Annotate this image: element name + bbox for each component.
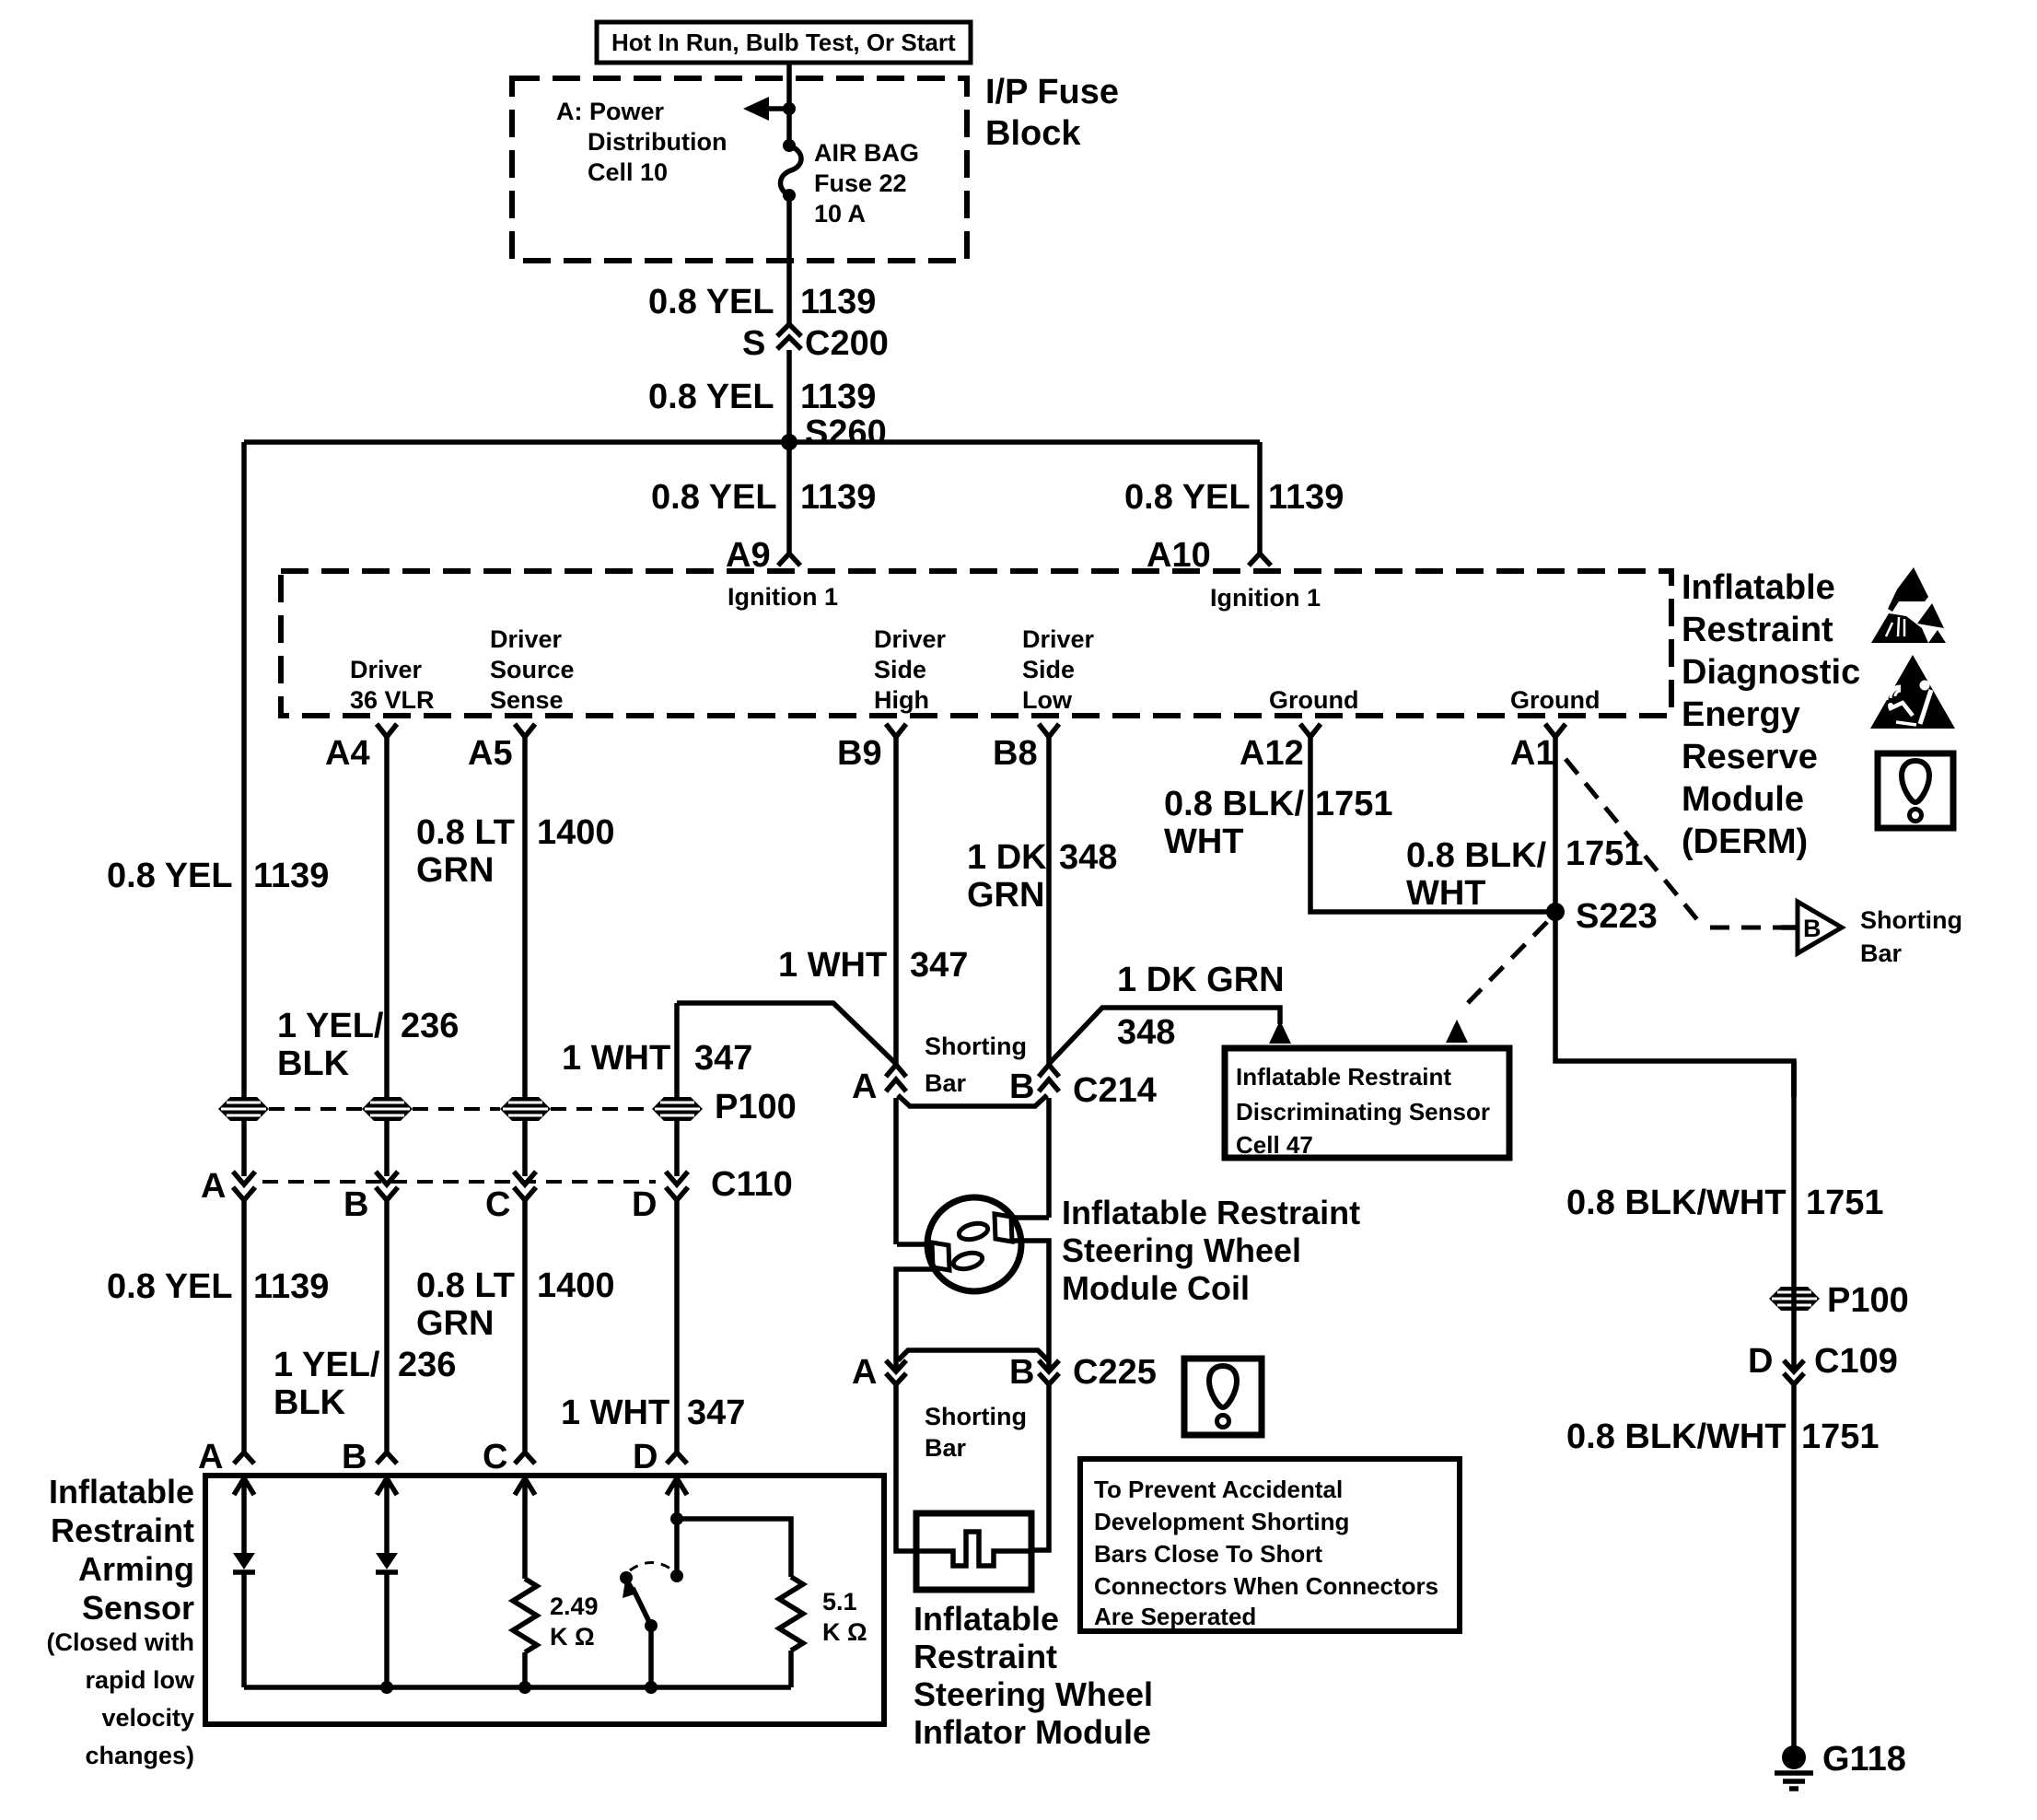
svg-text:High: High bbox=[874, 686, 929, 714]
label 0.8 LT GRN 1400 (lower) bbox=[416, 1266, 615, 1343]
svg-text:1 DK: 1 DK bbox=[967, 838, 1047, 877]
svg-text:C200: C200 bbox=[805, 324, 889, 363]
svg-text:changes): changes) bbox=[85, 1742, 194, 1769]
wire A9 branch bbox=[786, 442, 792, 554]
svg-text:1400: 1400 bbox=[537, 813, 615, 852]
svg-text:0.8 BLK/WHT: 0.8 BLK/WHT bbox=[1566, 1417, 1787, 1456]
svg-text:Bar: Bar bbox=[1860, 939, 1903, 967]
splice S223 bbox=[1546, 897, 1658, 936]
svg-text:K Ω: K Ω bbox=[822, 1618, 867, 1646]
svg-text:B8: B8 bbox=[993, 734, 1038, 773]
svg-text:AIR BAG: AIR BAG bbox=[814, 139, 919, 167]
switch dashed travel arc bbox=[630, 1563, 673, 1571]
svg-text:Bar: Bar bbox=[925, 1069, 967, 1097]
label 2.49 K ohm bbox=[550, 1592, 599, 1651]
svg-text:1139: 1139 bbox=[800, 478, 876, 517]
switch fixed contact (D) bbox=[674, 1519, 680, 1571]
arming sensor pin D fork bbox=[633, 1438, 687, 1476]
connector C109 pin D chevrons bbox=[1748, 1342, 1898, 1384]
wire S260 horizontal bus bbox=[244, 439, 1260, 445]
svg-text:S223: S223 bbox=[1576, 897, 1658, 936]
svg-text:B: B bbox=[343, 1185, 368, 1224]
arrow into pin C inside box bbox=[515, 1478, 535, 1579]
coil lower slip ring bbox=[897, 1242, 984, 1272]
connector C110 pin D chevrons bbox=[632, 1172, 688, 1224]
svg-text:Module Coil: Module Coil bbox=[1062, 1269, 1250, 1307]
DERM dashed box bbox=[281, 571, 1671, 716]
connector C110 pin A chevrons bbox=[201, 1167, 255, 1206]
svg-text:Restraint: Restraint bbox=[51, 1511, 194, 1549]
wire C225 A to inflator module bbox=[896, 1384, 916, 1551]
wire A4 column C110 to arming sensor bbox=[384, 1200, 390, 1452]
wire resistor 5.1 to bus bbox=[788, 1651, 794, 1687]
svg-text:Bar: Bar bbox=[925, 1434, 967, 1462]
arrow into pin A inside box bbox=[234, 1478, 254, 1553]
wire A5 column C110 to arming sensor bbox=[522, 1200, 528, 1452]
svg-text:347: 347 bbox=[910, 946, 968, 985]
svg-text:1 DK GRN: 1 DK GRN bbox=[1117, 961, 1285, 999]
label 1 YEL/ BLK 236 (A4) bbox=[277, 1007, 459, 1083]
svg-text:(Closed with: (Closed with bbox=[47, 1628, 195, 1656]
arrow to A: Power Distribution bbox=[743, 97, 796, 121]
svg-text:Block: Block bbox=[985, 114, 1081, 153]
connector row C110 dashed line bbox=[262, 1180, 656, 1184]
wire C200 to S260 bbox=[786, 350, 792, 442]
label 1 DK GRN 348 (B8) bbox=[967, 838, 1117, 915]
svg-text:Sensor: Sensor bbox=[82, 1589, 194, 1627]
svg-text:Side: Side bbox=[1022, 656, 1075, 683]
diode at pin A bbox=[233, 1553, 255, 1572]
wire D column C110 down then to C225 area label bbox=[674, 1200, 680, 1452]
wire C214 B down to coil bbox=[1046, 1098, 1052, 1218]
svg-text:P100: P100 bbox=[715, 1088, 797, 1126]
label 1 WHT 347 (D column) bbox=[562, 1039, 752, 1078]
svg-text:1139: 1139 bbox=[800, 283, 876, 321]
label 0.8 YEL 1139 (lower left) bbox=[107, 1267, 329, 1306]
wire B9 down to C214 A bbox=[893, 737, 899, 1065]
label 0.8 YEL 1139 bbox=[648, 378, 876, 416]
switch moving contact and arm bbox=[620, 1571, 658, 1687]
svg-text:0.8 YEL: 0.8 YEL bbox=[107, 857, 233, 895]
diode at pin B bbox=[376, 1553, 398, 1572]
label 0.8 BLK/ WHT 1751 (A1) bbox=[1406, 834, 1644, 913]
label Shorting Bar (C214) bbox=[925, 1032, 1027, 1097]
label A: Power Distribution Cell 10 bbox=[556, 98, 727, 186]
svg-text:347: 347 bbox=[687, 1394, 745, 1432]
arming sensor pin A fork bbox=[198, 1438, 254, 1476]
wire B8 down to C214 B bbox=[1046, 737, 1052, 1065]
grommet P100 (wire 2) bbox=[362, 1097, 413, 1121]
wire A4 down bbox=[384, 737, 390, 1176]
svg-text:C214: C214 bbox=[1073, 1071, 1157, 1110]
icon ESD warning triangle bbox=[1871, 567, 1946, 643]
svg-text:C110: C110 bbox=[711, 1165, 793, 1204]
svg-text:Discriminating Sensor: Discriminating Sensor bbox=[1236, 1098, 1490, 1126]
coil circle (steering wheel module coil) bbox=[927, 1197, 1021, 1291]
wire right column to P100 bbox=[1791, 1061, 1797, 1097]
svg-text:B: B bbox=[1009, 1353, 1034, 1392]
svg-text:236: 236 bbox=[401, 1007, 459, 1045]
label AIR BAG Fuse 22 10 A bbox=[814, 139, 919, 227]
dashed grommet line P100 bbox=[269, 1107, 652, 1111]
wire 1 DK GRN from C214 B to sensor box bbox=[1049, 1008, 1280, 1064]
svg-text:A: Power: A: Power bbox=[556, 98, 665, 125]
grommet P100 (right) bbox=[1769, 1287, 1820, 1311]
svg-text:B: B bbox=[1009, 1067, 1034, 1106]
connector C214 pin A chevrons bbox=[852, 1065, 906, 1106]
pin B9 fork bbox=[837, 724, 906, 773]
svg-text:Driver: Driver bbox=[350, 656, 423, 683]
svg-text:BLK: BLK bbox=[277, 1044, 350, 1083]
label Shorting Bar (C225) bbox=[925, 1403, 1027, 1462]
label 5.1 K ohm bbox=[822, 1588, 867, 1646]
junction dot bus B bbox=[380, 1681, 393, 1694]
svg-text:A5: A5 bbox=[468, 734, 513, 773]
svg-text:Cell 47: Cell 47 bbox=[1236, 1131, 1313, 1159]
svg-text:Energy: Energy bbox=[1682, 695, 1800, 734]
label 0.8 LT GRN 1400 (A5) bbox=[416, 813, 615, 890]
svg-text:A12: A12 bbox=[1240, 734, 1304, 773]
svg-text:B: B bbox=[1803, 915, 1822, 942]
svg-text:(DERM): (DERM) bbox=[1682, 822, 1808, 861]
svg-text:Connectors When Connectors: Connectors When Connectors bbox=[1094, 1572, 1438, 1600]
connector C110 pin B chevrons bbox=[343, 1172, 398, 1224]
svg-text:0.8 BLK/WHT: 0.8 BLK/WHT bbox=[1566, 1184, 1787, 1222]
svg-text:BLK: BLK bbox=[274, 1383, 346, 1422]
label 0.8 YEL 1139 (left column) bbox=[107, 857, 329, 895]
coil right output wire bbox=[1010, 1241, 1049, 1370]
svg-text:C225: C225 bbox=[1073, 1353, 1157, 1392]
svg-text:1751: 1751 bbox=[1801, 1417, 1880, 1456]
svg-text:Arming: Arming bbox=[78, 1550, 194, 1588]
svg-text:C: C bbox=[483, 1438, 507, 1476]
label Driver Side High bbox=[874, 625, 947, 714]
svg-text:1751: 1751 bbox=[1806, 1184, 1884, 1222]
svg-text:0.8 YEL: 0.8 YEL bbox=[1124, 478, 1251, 517]
svg-text:Driver: Driver bbox=[490, 625, 563, 653]
wire C109 to ground bbox=[1791, 1384, 1797, 1750]
svg-text:C: C bbox=[485, 1185, 510, 1224]
wire P100 to C109 bbox=[1791, 1061, 1797, 1370]
wire A1 down through S223 bbox=[1555, 737, 1794, 1097]
wire fuse to C200 bbox=[786, 195, 792, 324]
junction dot D branch bbox=[670, 1512, 683, 1525]
svg-text:D: D bbox=[632, 1185, 657, 1224]
svg-text:Hot In Run, Bulb Test, Or Star: Hot In Run, Bulb Test, Or Start bbox=[611, 29, 956, 56]
svg-text:Restraint: Restraint bbox=[914, 1638, 1057, 1675]
junction dot bus switch bbox=[645, 1681, 658, 1694]
svg-text:A: A bbox=[852, 1353, 877, 1392]
svg-text:1 YEL/: 1 YEL/ bbox=[274, 1346, 380, 1384]
label I/P Fuse Block bbox=[985, 73, 1119, 153]
svg-text:A4: A4 bbox=[325, 734, 370, 773]
svg-text:1139: 1139 bbox=[253, 1267, 329, 1306]
junction dot bus C bbox=[518, 1681, 531, 1694]
label Inflatable Restraint Steering Wheel Inflator Module bbox=[914, 1600, 1153, 1751]
svg-text:Cell 10: Cell 10 bbox=[588, 158, 668, 186]
icon airbag deployment triangle bbox=[1870, 655, 1955, 729]
svg-text:C109: C109 bbox=[1814, 1342, 1898, 1381]
svg-text:1139: 1139 bbox=[1268, 478, 1344, 517]
svg-text:A: A bbox=[198, 1438, 223, 1476]
connector C110 pin C chevrons bbox=[485, 1172, 536, 1224]
svg-text:Source: Source bbox=[490, 656, 575, 683]
svg-text:velocity: velocity bbox=[101, 1704, 194, 1732]
svg-text:Ignition 1: Ignition 1 bbox=[1210, 584, 1321, 612]
svg-text:Inflatable: Inflatable bbox=[49, 1473, 194, 1511]
wire left branch down bbox=[241, 442, 247, 1176]
wire A5 down bbox=[522, 737, 528, 1176]
svg-text:Sense: Sense bbox=[490, 686, 564, 714]
svg-text:347: 347 bbox=[694, 1039, 752, 1078]
wire diode B to bus bbox=[384, 1572, 390, 1687]
label Inflatable Restraint Diagnostic Energy Reserve Module (DERM) bbox=[1682, 568, 1860, 861]
svg-text:Shorting: Shorting bbox=[925, 1032, 1027, 1060]
svg-text:Steering Wheel: Steering Wheel bbox=[914, 1675, 1153, 1713]
arming sensor box bbox=[205, 1476, 884, 1724]
label 1 WHT 347 (lower) bbox=[561, 1394, 745, 1432]
svg-text:Are Seperated: Are Seperated bbox=[1094, 1603, 1256, 1630]
fuse F22 AIR BAG 10A bbox=[780, 139, 801, 202]
squib element inside inflator module bbox=[919, 1532, 1029, 1566]
svg-text:348: 348 bbox=[1059, 838, 1117, 877]
wire A10 branch bbox=[1257, 442, 1263, 554]
power source box "Hot In Run, Bulb Test, Or Start" bbox=[597, 22, 971, 63]
pin A1 fork bbox=[1510, 724, 1566, 773]
svg-text:Ignition 1: Ignition 1 bbox=[727, 583, 838, 611]
label 0.8 BLK/ WHT 1751 (A12) bbox=[1164, 785, 1393, 861]
arming sensor pin C fork bbox=[483, 1438, 535, 1476]
label 1 WHT 347 (B9) bbox=[778, 946, 968, 985]
grommet P100 (wire 3) bbox=[500, 1097, 551, 1121]
svg-text:Inflatable Restraint: Inflatable Restraint bbox=[1062, 1194, 1360, 1231]
pin A4 fork bbox=[325, 724, 397, 773]
label Inflatable Restraint Discriminating Sensor Cell 47 bbox=[1236, 1063, 1490, 1159]
wire C214 A down to coil bbox=[893, 1098, 899, 1244]
Inflatable Restraint Discriminating Sensor box bbox=[1225, 1048, 1509, 1158]
connector C200 pin S bbox=[742, 324, 889, 363]
svg-text:Side: Side bbox=[874, 656, 926, 683]
wire left column C110 to arming sensor bbox=[241, 1200, 247, 1452]
svg-text:1139: 1139 bbox=[253, 857, 329, 895]
svg-text:Fuse 22: Fuse 22 bbox=[814, 169, 907, 197]
dashed link S223 to discriminating sensor bbox=[1460, 922, 1547, 1011]
label 0.8 YEL 1139 bbox=[648, 283, 876, 321]
pin A5 fork bbox=[468, 724, 535, 773]
svg-text:Ground: Ground bbox=[1269, 686, 1358, 714]
svg-text:K Ω: K Ω bbox=[550, 1623, 595, 1651]
svg-text:Inflatable: Inflatable bbox=[914, 1600, 1059, 1638]
svg-text:0.8 YEL: 0.8 YEL bbox=[107, 1267, 233, 1306]
svg-text:WHT: WHT bbox=[1164, 822, 1244, 861]
svg-text:GRN: GRN bbox=[416, 1304, 494, 1343]
svg-text:B9: B9 bbox=[837, 734, 882, 773]
wire from source box into fuse block bbox=[786, 62, 792, 144]
svg-text:0.8 LT: 0.8 LT bbox=[416, 813, 515, 852]
svg-text:348: 348 bbox=[1117, 1013, 1175, 1052]
svg-text:Reserve: Reserve bbox=[1682, 738, 1818, 776]
svg-text:0.8 YEL: 0.8 YEL bbox=[648, 283, 774, 321]
sensor bottom bus bbox=[244, 1685, 791, 1690]
pin A12 fork bbox=[1240, 724, 1321, 773]
wire C225 B to inflator module bbox=[1031, 1384, 1049, 1550]
label Shorting Bar (symbol) bbox=[1860, 906, 1962, 967]
svg-text:Low: Low bbox=[1022, 686, 1073, 714]
label Driver Source Sense bbox=[490, 625, 575, 714]
svg-text:A: A bbox=[852, 1067, 877, 1106]
svg-text:S260: S260 bbox=[805, 414, 887, 452]
svg-text:D: D bbox=[1748, 1342, 1773, 1381]
label Driver 36 VLR bbox=[350, 656, 435, 714]
svg-text:D: D bbox=[633, 1438, 658, 1476]
svg-text:WHT: WHT bbox=[1406, 874, 1486, 913]
wire resistor C to bus bbox=[522, 1652, 528, 1687]
svg-text:Shorting: Shorting bbox=[1860, 906, 1962, 934]
svg-text:I/P Fuse: I/P Fuse bbox=[985, 73, 1119, 111]
svg-text:Ground: Ground bbox=[1510, 686, 1600, 714]
arrow into pin D inside box bbox=[667, 1478, 687, 1519]
label To Prevent Accidental Development Shorting Bars Close To Short Connectors When Connectors Are Seperated bbox=[1094, 1476, 1438, 1630]
pin A10 fork bbox=[1147, 536, 1271, 575]
svg-text:GRN: GRN bbox=[416, 851, 494, 890]
svg-text:rapid low: rapid low bbox=[85, 1666, 195, 1694]
svg-text:P100: P100 bbox=[1827, 1281, 1909, 1320]
svg-text:0.8 YEL: 0.8 YEL bbox=[651, 478, 777, 517]
arming sensor pin B fork bbox=[342, 1438, 397, 1476]
connector C214 pin B chevrons bbox=[1009, 1065, 1059, 1106]
label Driver Side Low bbox=[1022, 625, 1095, 714]
svg-text:Driver: Driver bbox=[1022, 625, 1095, 653]
svg-text:G118: G118 bbox=[1822, 1740, 1906, 1779]
wire A12 down and to S223 bbox=[1310, 737, 1552, 912]
svg-text:Shorting: Shorting bbox=[925, 1403, 1027, 1430]
svg-text:0.8 YEL: 0.8 YEL bbox=[648, 378, 774, 416]
svg-text:5.1: 5.1 bbox=[822, 1588, 857, 1616]
svg-text:10 A: 10 A bbox=[814, 200, 866, 227]
label 0.8 BLK/WHT 1751 (right lower) bbox=[1566, 1417, 1880, 1456]
svg-text:Inflatable Restraint: Inflatable Restraint bbox=[1236, 1063, 1451, 1091]
shorting bar bracket C225 bbox=[898, 1350, 1048, 1360]
svg-text:1751: 1751 bbox=[1315, 785, 1393, 823]
svg-text:36 VLR: 36 VLR bbox=[350, 686, 435, 714]
resistor 2.49 K ohm bbox=[513, 1579, 537, 1652]
label 1 YEL/ BLK 236 (lower) bbox=[274, 1346, 456, 1422]
svg-text:Diagnostic: Diagnostic bbox=[1682, 653, 1860, 692]
svg-text:Steering Wheel: Steering Wheel bbox=[1062, 1231, 1301, 1269]
svg-text:A1: A1 bbox=[1510, 734, 1555, 773]
svg-text:Bars Close To Short: Bars Close To Short bbox=[1094, 1540, 1322, 1568]
svg-text:Driver: Driver bbox=[874, 625, 947, 653]
wire diode A to bus bbox=[241, 1572, 247, 1687]
resistor 5.1 K ohm bbox=[779, 1577, 803, 1651]
label 0.8 YEL 1139 (A10) bbox=[1124, 478, 1344, 517]
inflator module box bbox=[916, 1513, 1031, 1590]
svg-text:To Prevent Accidental: To Prevent Accidental bbox=[1094, 1476, 1343, 1503]
coil upper slip ring bbox=[958, 1214, 1049, 1242]
svg-text:1400: 1400 bbox=[537, 1266, 615, 1305]
connector C225 pin A chevrons bbox=[852, 1353, 906, 1392]
label Inflatable Restraint Arming Sensor (Closed with rapid low velocity changes) bbox=[47, 1473, 195, 1769]
svg-text:Distribution: Distribution bbox=[588, 128, 727, 156]
shorting bar bracket C214 bbox=[898, 1095, 1047, 1106]
svg-text:1 WHT: 1 WHT bbox=[778, 946, 887, 985]
svg-text:1 YEL/: 1 YEL/ bbox=[277, 1007, 384, 1045]
dashed link A1 to shorting bar symbol bbox=[1566, 759, 1781, 927]
svg-text:Module: Module bbox=[1682, 780, 1804, 819]
svg-text:2.49: 2.49 bbox=[550, 1592, 599, 1620]
svg-text:236: 236 bbox=[398, 1346, 456, 1384]
svg-text:1 WHT: 1 WHT bbox=[561, 1394, 669, 1432]
coil left output wire bbox=[896, 1269, 933, 1370]
connector C225 pin B chevrons bbox=[1009, 1353, 1059, 1392]
svg-text:1139: 1139 bbox=[800, 378, 876, 416]
goes-to triangle (S223 link) bbox=[1446, 1020, 1468, 1043]
svg-text:0.8 LT: 0.8 LT bbox=[416, 1266, 515, 1305]
pin B8 fork bbox=[993, 724, 1059, 773]
ground G118 bbox=[1775, 1740, 1906, 1789]
shorting bar triangle symbol B bbox=[1781, 902, 1842, 953]
grommet P100 (wire 4) bbox=[652, 1097, 703, 1121]
svg-text:0.8 BLK/: 0.8 BLK/ bbox=[1164, 785, 1304, 823]
To Prevent Accidental box bbox=[1080, 1459, 1460, 1631]
svg-text:B: B bbox=[342, 1438, 367, 1476]
svg-text:1 WHT: 1 WHT bbox=[562, 1039, 670, 1078]
svg-text:S: S bbox=[742, 324, 765, 363]
svg-text:A: A bbox=[201, 1167, 226, 1206]
icon warning exclamation box (right) bbox=[1878, 753, 1953, 828]
svg-text:Inflator Module: Inflator Module bbox=[914, 1713, 1151, 1751]
svg-text:0.8 BLK/: 0.8 BLK/ bbox=[1406, 836, 1546, 875]
svg-text:GRN: GRN bbox=[967, 876, 1044, 915]
svg-text:Inflatable: Inflatable bbox=[1682, 568, 1835, 607]
label Inflatable Restraint Steering Wheel Module Coil bbox=[1062, 1194, 1360, 1307]
wire 1 WHT from D column corner to C214 A bbox=[677, 1003, 896, 1064]
arrow into pin B inside box bbox=[377, 1478, 397, 1553]
icon warning exclamation box (middle) bbox=[1184, 1359, 1262, 1435]
label 0.8 YEL 1139 (A9) bbox=[651, 478, 876, 517]
pin A9 fork bbox=[726, 536, 800, 575]
label 1 DK GRN 348 (diagonal wire) bbox=[1117, 961, 1285, 1052]
wire D to 5.1K resistor bbox=[677, 1519, 791, 1577]
grommet P100 (wire 1) bbox=[218, 1097, 269, 1121]
svg-text:Development Shorting: Development Shorting bbox=[1094, 1508, 1349, 1535]
wire D column down bbox=[674, 1003, 680, 1176]
I/P Fuse Block dashed box bbox=[512, 78, 967, 261]
splice S260 bbox=[781, 414, 887, 452]
svg-text:Restraint: Restraint bbox=[1682, 611, 1833, 649]
goes-to triangle (DK GRN) bbox=[1269, 1021, 1291, 1044]
label 0.8 BLK/WHT 1751 (right mid) bbox=[1566, 1184, 1884, 1222]
